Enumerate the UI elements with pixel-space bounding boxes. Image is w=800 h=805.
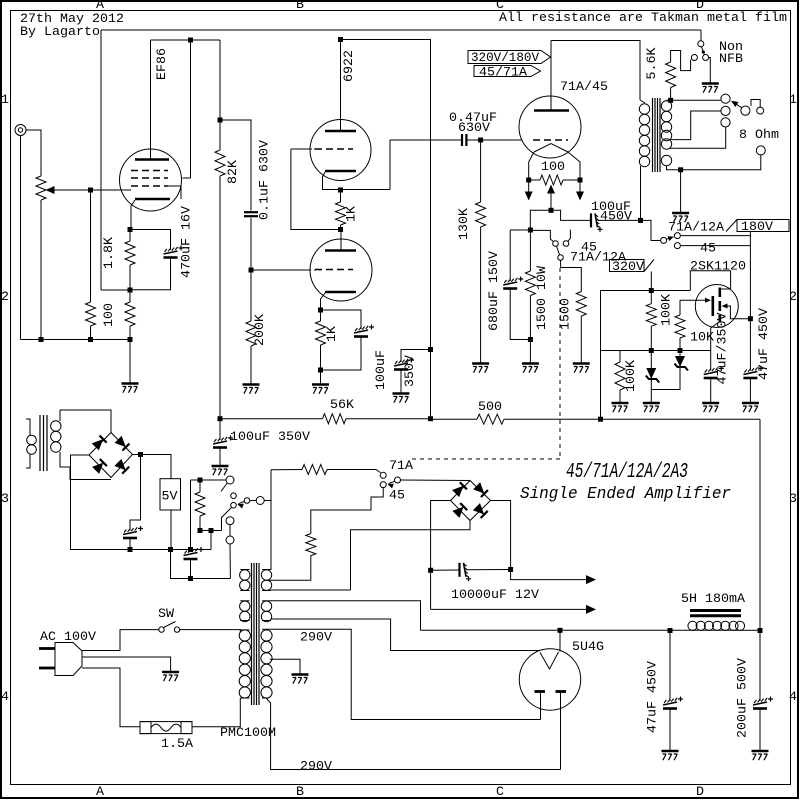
potentiometer VR1 volume bbox=[36, 176, 46, 200]
junction bbox=[218, 416, 223, 421]
6922a plate electrode bbox=[325, 130, 356, 133]
wire grid dotted bbox=[310, 148, 315, 150]
wire screen into tube bbox=[183, 177, 191, 179]
wire zener top bbox=[679, 351, 681, 357]
junction bbox=[318, 368, 323, 373]
EF86 grid g2 screen bbox=[131, 177, 168, 179]
wire NFB top rail bbox=[101, 29, 701, 31]
junction bbox=[128, 547, 133, 552]
wire bbox=[580, 316, 582, 363]
junction bbox=[338, 227, 343, 232]
diode B1 bottom-right bbox=[114, 459, 129, 474]
junction bbox=[508, 567, 513, 572]
junction bbox=[138, 452, 143, 457]
wire bbox=[650, 379, 652, 403]
resistor heater selector bbox=[195, 492, 205, 516]
wire gang link dashed bbox=[412, 458, 560, 460]
potentiometer hum wiper arrow bbox=[547, 185, 555, 194]
wire bbox=[400, 370, 402, 393]
svg-text:56K: 56K bbox=[330, 397, 354, 412]
svg-text:470uF 16V: 470uF 16V bbox=[179, 206, 194, 278]
svg-text:680uF 150V: 680uF 150V bbox=[486, 251, 501, 331]
wire bbox=[650, 326, 652, 350]
wire to 71A/45 grid bbox=[481, 139, 522, 141]
svg-text:82K: 82K bbox=[225, 160, 240, 184]
wire bbox=[650, 291, 652, 304]
svg-text:320V/180V: 320V/180V bbox=[471, 50, 539, 65]
svg-text:100K: 100K bbox=[659, 294, 674, 326]
switch lever A bbox=[221, 483, 227, 492]
svg-text:45/71A: 45/71A bbox=[479, 65, 527, 80]
tube 5U4G V4 envelope bbox=[519, 649, 580, 710]
tube 71A/45 V3 envelope bbox=[519, 96, 581, 158]
switch heater selector E bbox=[256, 497, 264, 505]
71A/45 filament bbox=[534, 144, 568, 153]
switch cathode selector throw left bbox=[553, 241, 559, 247]
wire selector to winding top bbox=[266, 470, 271, 570]
wire 130K bottom bbox=[480, 227, 482, 363]
wire 5V top to 5U4G bbox=[271, 601, 421, 631]
junction bbox=[209, 528, 214, 533]
svg-text:200uF 500V: 200uF 500V bbox=[735, 658, 750, 738]
capacitor 47uF 450V bbox=[743, 366, 763, 378]
ground 100uF bbox=[212, 466, 229, 475]
wire bbox=[745, 629, 761, 631]
junction bbox=[638, 218, 643, 223]
switch plate selector throw 45 bbox=[674, 243, 680, 249]
wire follower out bbox=[389, 140, 391, 190]
transformer primary 100V bbox=[239, 630, 250, 698]
wire 5.6K to switch bbox=[671, 51, 691, 71]
wire NFB to cathode network bbox=[101, 289, 130, 291]
resistor 200K grid bbox=[246, 321, 256, 346]
junction bbox=[198, 478, 203, 483]
selector lever bbox=[732, 102, 742, 108]
winding lead bbox=[240, 600, 249, 602]
wire switch to ground bbox=[709, 58, 711, 84]
transformer winding L2 bbox=[240, 601, 250, 622]
svg-text:100: 100 bbox=[101, 303, 116, 327]
wire to 6922 lower grid bbox=[251, 269, 309, 271]
choke core bar bbox=[690, 609, 741, 612]
wire grid bias loop bbox=[291, 149, 341, 230]
wire filament to dc rail bbox=[559, 630, 561, 651]
svg-text:B: B bbox=[296, 0, 304, 12]
junction bbox=[218, 118, 223, 123]
selector terminal aux bbox=[757, 107, 764, 114]
ground secondary bbox=[672, 213, 689, 222]
transformer OPT secondary winding bbox=[661, 101, 671, 166]
wire winding to bridge bottom bbox=[60, 452, 111, 480]
capacitor 0.1uF 630V coupling bbox=[244, 212, 258, 216]
wire 200uF500V top bbox=[759, 631, 761, 702]
71A/45 plate electrode bbox=[534, 109, 569, 112]
wire B+ feed vertical bbox=[341, 40, 431, 419]
arrow dc out 1 bbox=[586, 575, 596, 584]
wire bbox=[190, 560, 192, 579]
capacitor heater filter bbox=[123, 526, 143, 538]
junction bbox=[188, 38, 193, 43]
choke 5H 180mA winding bbox=[688, 621, 745, 630]
wire bbox=[467, 569, 511, 571]
junction bbox=[188, 576, 193, 581]
wire secondary bottom to jack bbox=[667, 155, 761, 170]
switch cathode selector throw right bbox=[563, 241, 569, 247]
svg-text:A: A bbox=[96, 784, 104, 799]
wire bbox=[219, 448, 221, 466]
wire throw 45 to 180V rail bbox=[680, 245, 750, 247]
wire bbox=[210, 531, 212, 550]
wire mains neutral to fuse bbox=[82, 668, 140, 727]
wire plate to OPT primary bbox=[551, 41, 640, 101]
EF86 cathode electrode bbox=[135, 198, 170, 201]
plug prong top bbox=[39, 647, 55, 650]
ground 1500 bbox=[573, 364, 590, 373]
wire bbox=[129, 230, 131, 242]
svg-text:EF86: EF86 bbox=[154, 48, 169, 80]
switch SW lever bbox=[164, 622, 176, 628]
capacitor 470uF 16V cathode bypass bbox=[164, 246, 184, 258]
transformer OPT primary winding bbox=[639, 104, 649, 167]
arrow to filament supply right bbox=[576, 192, 584, 201]
wire winding R1 bottom bbox=[271, 589, 351, 591]
wire bbox=[529, 230, 531, 271]
transformer winding L1 bbox=[240, 570, 250, 591]
wire fuse to primary bottom bbox=[192, 698, 240, 727]
wire cathode to bypass cap bbox=[130, 230, 171, 251]
capacitor 100uF 350V bbox=[394, 358, 414, 370]
wire dropper left bbox=[271, 469, 302, 471]
arrow dc out 2 bbox=[586, 605, 596, 614]
switch filament pole bbox=[395, 477, 401, 483]
wire to 10000uF bbox=[431, 569, 459, 571]
wire EF86 screen lead bbox=[190, 40, 192, 178]
wire plate left lead bbox=[540, 692, 542, 720]
wire drain loop bbox=[690, 271, 730, 291]
wire 290V bottom to plate bbox=[266, 698, 561, 770]
node flag 45/71A bbox=[474, 66, 541, 77]
svg-text:180V: 180V bbox=[741, 219, 773, 234]
5U4G plate right bbox=[556, 690, 567, 693]
wire bbox=[529, 340, 531, 364]
wire to filter cap bbox=[130, 455, 141, 531]
svg-text:5H 180mA: 5H 180mA bbox=[681, 591, 745, 606]
6922b plate electrode bbox=[325, 249, 356, 252]
selector pole bbox=[741, 106, 750, 115]
svg-text:All resistance are Takman meta: All resistance are Takman metal film bbox=[499, 10, 787, 25]
capacitor 100uF 450V bbox=[591, 213, 603, 232]
svg-text:2: 2 bbox=[1, 289, 9, 304]
wire filament right leg bbox=[568, 152, 580, 180]
switch cathode selector pole bbox=[558, 255, 564, 261]
wire bbox=[129, 326, 131, 340]
switch NonNFB terminal top bbox=[698, 41, 704, 47]
wire bbox=[579, 180, 581, 192]
junction bbox=[338, 188, 343, 193]
svg-text:450V: 450V bbox=[600, 209, 632, 224]
switch heater selector A bbox=[226, 476, 234, 484]
wire 47uF/350V top bbox=[710, 351, 712, 371]
svg-text:C: C bbox=[496, 784, 504, 799]
5U4G filament bbox=[540, 652, 559, 669]
wire to 100uF 350V cap bbox=[401, 350, 431, 363]
wire 320V node rail bbox=[601, 290, 691, 292]
svg-text:8 Ohm: 8 Ohm bbox=[739, 127, 779, 142]
svg-text:1K: 1K bbox=[344, 206, 359, 222]
wire bridge plus bbox=[133, 454, 141, 456]
transformer heater primary bbox=[27, 435, 37, 454]
winding lead bbox=[262, 590, 271, 592]
wire bbox=[749, 379, 751, 403]
wire bridge minus down bbox=[431, 501, 451, 610]
wire grid resistor bottom bbox=[90, 326, 92, 340]
wire rail bbox=[346, 418, 431, 420]
ground 100uF350V bbox=[393, 394, 410, 403]
wire 200K to ground bbox=[250, 346, 252, 384]
junction bbox=[598, 417, 603, 422]
wire G down bbox=[229, 544, 231, 579]
junction bbox=[578, 178, 583, 183]
wire rail bbox=[220, 418, 323, 420]
wire bias node rail bbox=[601, 350, 711, 352]
svg-text:630V: 630V bbox=[458, 120, 490, 135]
wire bbox=[129, 290, 131, 302]
wire 6922a plate lead bbox=[340, 40, 342, 132]
transistor 2SK1120 Q1 envelope bbox=[695, 285, 738, 328]
fuse 1.5A bbox=[140, 722, 192, 734]
resistor 100 cathode bottom bbox=[125, 302, 135, 326]
Q1 channel drain bbox=[718, 288, 721, 298]
svg-text:100: 100 bbox=[541, 159, 565, 174]
wire to 100uF 350V bbox=[219, 419, 221, 440]
wire B+ down to choke bbox=[759, 419, 761, 630]
ground center tap bbox=[292, 675, 309, 684]
capacitor 10000uF 12V bbox=[460, 563, 472, 582]
ground mains earth bbox=[162, 672, 179, 681]
resistor 100K lower bbox=[615, 362, 625, 390]
winding lead bbox=[240, 629, 249, 631]
winding lead bbox=[240, 590, 249, 592]
switch heater selector C bbox=[231, 502, 237, 508]
svg-text:45: 45 bbox=[700, 241, 716, 256]
svg-text:45/71A/12A/2A3: 45/71A/12A/2A3 bbox=[566, 461, 688, 484]
wire bypass bottom bbox=[321, 337, 362, 370]
wire winding to bridge top bbox=[60, 410, 111, 433]
Q1 source arrow bbox=[722, 304, 728, 309]
switch SW terminal left bbox=[159, 627, 164, 632]
wire 47uF 450V top bbox=[749, 319, 751, 371]
capacitor 100uF 350V input filter bbox=[213, 436, 233, 448]
wire pole to rectifier bbox=[401, 479, 471, 482]
switch SW terminal right bbox=[174, 627, 179, 632]
svg-text:290V: 290V bbox=[300, 630, 332, 645]
wire 5V bottom to 5U4G filament bbox=[271, 619, 540, 651]
ground zeners bbox=[643, 403, 660, 412]
wire choke base bbox=[688, 629, 745, 631]
wire to ground bbox=[129, 340, 131, 384]
output jack bbox=[756, 146, 765, 155]
resistor 56K bbox=[323, 414, 347, 424]
switch NonNFB lever bbox=[702, 47, 705, 55]
wire 180V vertical bbox=[749, 232, 751, 319]
wire secondary tap 2 bbox=[670, 127, 726, 148]
EF86 grid g1 bbox=[131, 170, 168, 172]
wire VR1 wiper to EF86 grid bbox=[52, 189, 131, 191]
wire rail bbox=[431, 418, 478, 420]
plug prong bottom bbox=[39, 667, 55, 670]
wire to 1K bypass cap bbox=[321, 310, 362, 329]
winding lead bbox=[262, 628, 266, 630]
wire bbox=[199, 516, 201, 531]
junction bbox=[128, 337, 133, 342]
wire 290V top to plate bbox=[266, 629, 541, 719]
wire 680uF top bbox=[509, 230, 511, 281]
wire 680uF bottom bbox=[510, 289, 530, 340]
resistor grid leak bbox=[86, 302, 96, 326]
switch filament throw 45 bbox=[380, 482, 386, 488]
switch lever arrowhead bbox=[668, 236, 674, 241]
junction bbox=[188, 547, 193, 552]
switch plate selector pole bbox=[661, 237, 667, 243]
wire Q1 source to bias node bbox=[711, 322, 720, 351]
wire F-G bbox=[229, 525, 231, 536]
ground input bus bbox=[122, 384, 139, 393]
71A/45 grid bbox=[533, 139, 568, 141]
svg-text:290V: 290V bbox=[300, 759, 332, 774]
ground 6922 cathode bbox=[312, 385, 329, 394]
resistor 10K gate bbox=[675, 315, 685, 338]
wire filament dc out 1 bbox=[511, 570, 594, 580]
svg-text:1: 1 bbox=[789, 92, 797, 107]
wire bbox=[320, 345, 322, 370]
junction bbox=[428, 347, 433, 352]
junction bbox=[338, 37, 343, 42]
wire bbox=[563, 179, 580, 181]
capacitor 200uF 500V bbox=[753, 697, 773, 709]
svg-text:Single Ended Amplifier: Single Ended Amplifier bbox=[520, 485, 731, 504]
tube 6922 V2b envelope bbox=[310, 239, 372, 301]
rectifier bridge B2 ring bbox=[451, 481, 491, 521]
svg-text:130K: 130K bbox=[456, 208, 471, 240]
wire rail to Non NFB switch bbox=[700, 30, 702, 41]
svg-text:0.1uF 630V: 0.1uF 630V bbox=[257, 140, 272, 220]
resistor 1K upper bbox=[336, 202, 346, 225]
6922a cathode electrode bbox=[325, 170, 356, 173]
wire secondary tap 1 bbox=[670, 111, 721, 140]
wire bbox=[340, 190, 342, 202]
wire bbox=[510, 229, 530, 231]
wire EF86 plate lead bbox=[150, 40, 152, 160]
wire regulator out bbox=[170, 510, 172, 550]
transformer heater primary lead bottom bbox=[26, 454, 30, 468]
wire bbox=[467, 139, 481, 141]
svg-text:3: 3 bbox=[1, 491, 9, 506]
junction bbox=[128, 227, 133, 232]
resistor filament dropper 2 bbox=[306, 534, 316, 556]
winding lead bbox=[262, 697, 266, 699]
switch lever D bbox=[239, 502, 245, 504]
svg-text:320V: 320V bbox=[612, 259, 644, 274]
junction bbox=[88, 337, 93, 342]
wire winding bottom to bridge bbox=[351, 521, 471, 591]
switch D arrowhead bbox=[237, 504, 243, 509]
wire SW to primary bbox=[180, 630, 241, 632]
transformer heater primary lead top bbox=[26, 419, 30, 435]
wire bridge plus down bbox=[491, 501, 511, 570]
wire 6922b plate lead bbox=[340, 230, 342, 251]
arrow to filament supply left bbox=[525, 192, 533, 201]
resistor 1.8K cathode bbox=[125, 241, 135, 265]
input jack J1 inner bbox=[18, 128, 22, 132]
junction bbox=[428, 416, 433, 421]
junction bbox=[649, 288, 654, 293]
capacitor heater filter 2 bbox=[184, 547, 204, 559]
switch heater selector G bbox=[226, 536, 234, 544]
junction bbox=[668, 98, 673, 103]
resistor 500 bbox=[477, 414, 504, 424]
wire bus up bbox=[190, 480, 192, 550]
wire 45 throw to dropper 2 bbox=[311, 488, 383, 534]
ground 1500 10W bbox=[522, 364, 539, 373]
wire 6922a grid lead bbox=[291, 148, 310, 150]
junction bbox=[678, 348, 683, 353]
wire 5.6K to secondary top bbox=[670, 88, 672, 101]
wire pole to 1500 bbox=[561, 260, 582, 291]
switch plate selector throw 71A/12A bbox=[674, 233, 680, 239]
svg-text:10000uF 12V: 10000uF 12V bbox=[451, 587, 539, 602]
wire wiper to 100uF450V bbox=[551, 210, 591, 220]
wire screen dropper top bbox=[219, 40, 221, 150]
EF86 plate electrode bbox=[135, 158, 169, 161]
wire coupling cap to 200K bbox=[250, 218, 252, 321]
selector terminal 16ohm bbox=[721, 94, 730, 103]
wire wiper to cathode network bbox=[530, 210, 551, 230]
rectifier bridge B1 ring bbox=[89, 433, 133, 478]
svg-text:1K: 1K bbox=[324, 326, 339, 342]
wire EF86 plate to screen node bbox=[151, 39, 221, 41]
transformer heater core bbox=[40, 415, 47, 471]
transformer HV secondary bbox=[261, 630, 272, 698]
wire to switch throw bbox=[530, 230, 553, 241]
transformer PMC100M core bbox=[252, 563, 260, 705]
svg-text:47uF 450V: 47uF 450V bbox=[756, 308, 771, 380]
wire bbox=[528, 180, 530, 192]
wire bbox=[710, 379, 712, 403]
switch heater selector F bbox=[226, 517, 234, 525]
switch lever bbox=[557, 246, 560, 255]
switch filament throw 71A bbox=[380, 472, 386, 478]
node flag 180V bbox=[726, 220, 789, 232]
switch lever bbox=[389, 481, 395, 483]
selector terminal 8ohm bbox=[721, 106, 730, 115]
wire to coupling cap 0.1uF bbox=[220, 120, 251, 211]
wire bbox=[529, 179, 540, 181]
junction bbox=[249, 268, 254, 273]
node flag 320V/180V bbox=[468, 51, 551, 64]
diode zener D1 bbox=[675, 356, 689, 371]
ground 47uF450V bbox=[662, 751, 679, 760]
6922b cathode electrode bbox=[325, 291, 356, 294]
capacitor 47uF 450V reservoir bbox=[663, 697, 683, 709]
junction bbox=[526, 178, 531, 183]
svg-text:47uF/350V: 47uF/350V bbox=[715, 312, 730, 384]
EF86 grid g3 suppressor bbox=[131, 185, 168, 187]
choke core bar bbox=[690, 614, 741, 617]
svg-text:47uF 450V: 47uF 450V bbox=[645, 661, 660, 733]
potentiometer VR1 wiper arrow bbox=[46, 186, 55, 194]
resistor 5.6K NFB bbox=[666, 62, 676, 88]
wire 320V flag down bbox=[650, 272, 652, 291]
